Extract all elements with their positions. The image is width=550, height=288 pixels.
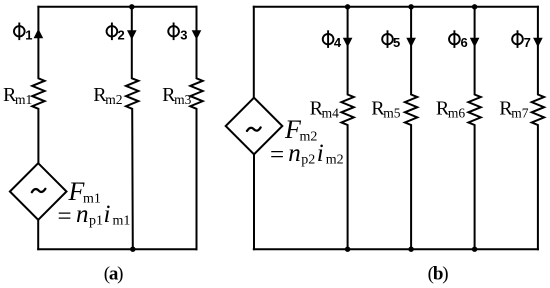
wire: circuit (b) top rail — [254, 6, 538, 8]
svg-text:3: 3 — [180, 27, 187, 42]
flux arrow phi5 (down) — [406, 38, 416, 48]
phi symbol of label phi4 — [323, 30, 334, 48]
MMF source Fm1 diamond — [10, 163, 67, 220]
wire: circuit (a) bottom rail — [38, 248, 196, 250]
node dot: (b) bottom branch1 junction — [345, 247, 350, 252]
svg-text:m6: m6 — [448, 105, 466, 120]
wire: circuit (a) right branch with resistor Rm3 — [190, 7, 202, 249]
flux arrow phi6 (down) — [470, 38, 480, 48]
phi symbol of label phi5 — [382, 30, 393, 48]
phi symbol of label phi1 — [14, 23, 25, 41]
ac tilde inside source Fm2 — [247, 128, 261, 131]
svg-text:=: = — [58, 203, 72, 230]
MMF source Fm2 diamond — [226, 98, 283, 155]
svg-text:m1: m1 — [113, 214, 131, 229]
svg-text:p1: p1 — [89, 214, 103, 229]
svg-text:5: 5 — [393, 35, 400, 50]
svg-text:1: 1 — [25, 27, 32, 42]
svg-text:m2: m2 — [326, 153, 344, 168]
svg-text:m7: m7 — [511, 105, 529, 120]
wire: circuit (b) branch 2 with resistor Rm5 — [405, 7, 417, 249]
wire: circuit (a) top rail — [38, 6, 196, 8]
svg-text:m3: m3 — [174, 92, 192, 107]
flux arrow phi4 (down) — [343, 38, 353, 48]
wire: circuit (a) left branch upper segment with resistor Rm1 — [32, 7, 44, 163]
wire: circuit (b) bottom rail — [254, 248, 538, 250]
wire: circuit (a) left branch lower segment — [37, 220, 39, 249]
flux arrow phi3 (down) — [192, 30, 202, 40]
wire: circuit (b) left branch upper segment — [253, 7, 255, 98]
flux arrow phi7 (down) — [533, 38, 543, 48]
svg-text:m2: m2 — [105, 92, 122, 107]
node dot: (b) top branch3 junction — [472, 4, 477, 9]
node dot: (b) bottom branch2 junction — [408, 247, 413, 252]
node dot: (b) top branch1 junction — [345, 4, 350, 9]
wire: circuit (b) branch 3 with resistor Rm6 — [468, 7, 480, 249]
svg-text:(b): (b) — [428, 264, 449, 285]
svg-text:p2: p2 — [301, 153, 315, 168]
svg-text:n: n — [76, 201, 89, 228]
svg-text:m5: m5 — [383, 105, 401, 120]
flux arrow phi1 (up) — [34, 29, 44, 39]
flux arrow phi2 (down) — [127, 30, 137, 40]
svg-text:m2: m2 — [300, 129, 318, 144]
node dot: (a) bottom middle junction — [130, 247, 135, 252]
node dot: (b) top branch2 junction — [408, 4, 413, 9]
wire: circuit (b) left branch lower segment — [253, 154, 255, 249]
node dot: (a) top middle junction — [129, 4, 134, 9]
phi symbol of label phi6 — [449, 30, 460, 48]
svg-text:6: 6 — [460, 35, 467, 50]
svg-text:m1: m1 — [15, 92, 32, 107]
svg-text:=: = — [270, 142, 284, 169]
svg-text:m4: m4 — [322, 105, 340, 120]
svg-text:2: 2 — [117, 27, 124, 42]
node dot: (b) bottom branch3 junction — [472, 247, 477, 252]
svg-text:i: i — [317, 140, 324, 167]
phi symbol of label phi3 — [168, 23, 179, 41]
wire: circuit (b) branch 4 with resistor Rm7 — [532, 7, 544, 249]
svg-text:4: 4 — [334, 35, 342, 50]
svg-text:7: 7 — [524, 35, 531, 50]
svg-text:i: i — [104, 201, 111, 228]
wire: circuit (b) branch 1 with resistor Rm4 — [341, 7, 353, 249]
ac tilde inside source Fm1 — [32, 189, 46, 192]
wire: circuit (a) middle branch with resistor Rm2 — [126, 7, 138, 249]
phi symbol of label phi7 — [512, 30, 523, 48]
svg-text:(a): (a) — [104, 264, 123, 285]
svg-text:n: n — [288, 140, 301, 167]
phi symbol of label phi2 — [107, 23, 118, 41]
